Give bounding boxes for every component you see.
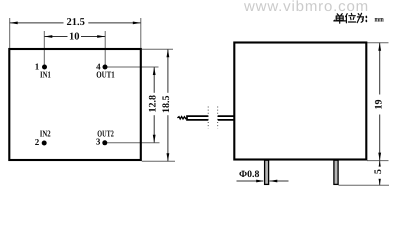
pin 4 name OUT1 [96,69,115,79]
unit text mm [375,15,385,24]
pin 3 dot [102,140,107,145]
单 [337,14,342,16]
svg-text:5: 5 [373,169,384,174]
pin 1 name IN1 [40,70,51,80]
side wire left segment [187,116,208,120]
pin B (right, side view) [334,160,338,184]
svg-text:10: 10 [69,31,80,42]
leader line left for pin diameter [237,180,265,183]
extension line from pin4 right for 12.8 [107,66,159,68]
svg-text:IN1: IN1 [40,70,51,80]
pin 2 label [35,137,40,147]
svg-text:www.vibmro.com: www.vibmro.com [243,0,369,15]
right view package body fill [234,43,366,160]
svg-text:IN2: IN2 [40,128,51,138]
pin 2 name IN2 [40,128,51,138]
extension line from pin4 for 10 [104,31,106,65]
pin 4 dot [103,65,108,70]
svg-text:18.5: 18.5 [161,96,172,114]
svg-text:19: 19 [374,100,385,110]
dimension line 21.5 [10,17,141,28]
leader line right for pin diameter [269,180,288,183]
right view package outline [234,43,366,160]
为 [357,13,363,22]
pin 4 label [96,62,101,72]
extension line right for 21.5 [140,18,142,48]
dimension line 10 [44,31,105,43]
extension line top for 19 [367,42,389,44]
side wire zigzag broken end [177,117,187,119]
dimension line 18.5 [161,49,173,161]
left view package body fill [9,49,141,160]
位 [346,14,348,23]
： [365,16,367,21]
pin 3 label [96,137,101,147]
extension line bottom edge (shared 19/5) [367,160,389,162]
dimension line 5 [373,161,384,186]
pin 2 dot [42,141,47,146]
left view package outline [9,49,141,160]
svg-text:21.5: 21.5 [67,17,85,28]
svg-text:OUT2: OUT2 [97,129,114,139]
side wire right segment [218,116,235,120]
pin 1 label [35,62,40,72]
unit note: 单位为：mm [334,13,367,23]
extension line pin bottom for 5 [339,184,390,186]
extension line top for 18.5 [142,48,173,50]
pin A (left, side view) [265,160,269,184]
watermark www.vibmro.com [243,0,369,15]
break line left (dotted) [207,107,209,129]
svg-text:Φ0.8: Φ0.8 [239,169,259,180]
pin diameter text Φ0.8 [239,169,259,180]
extension line left for 21.5 [9,18,11,48]
svg-text:12.8: 12.8 [147,95,158,113]
pin 3 name OUT2 [97,129,114,139]
svg-text:mm: mm [375,15,385,24]
dimension line 12.8 [147,67,159,143]
dimension line 19 [374,43,385,161]
extension line from pin3 right for 12.8 [107,142,160,144]
break line right (dotted) [217,107,219,129]
extension line from pin1 for 10 [43,31,45,65]
extension line bottom for 18.5 [142,160,175,162]
pin 1 dot [42,65,47,70]
svg-text:OUT1: OUT1 [96,69,115,79]
